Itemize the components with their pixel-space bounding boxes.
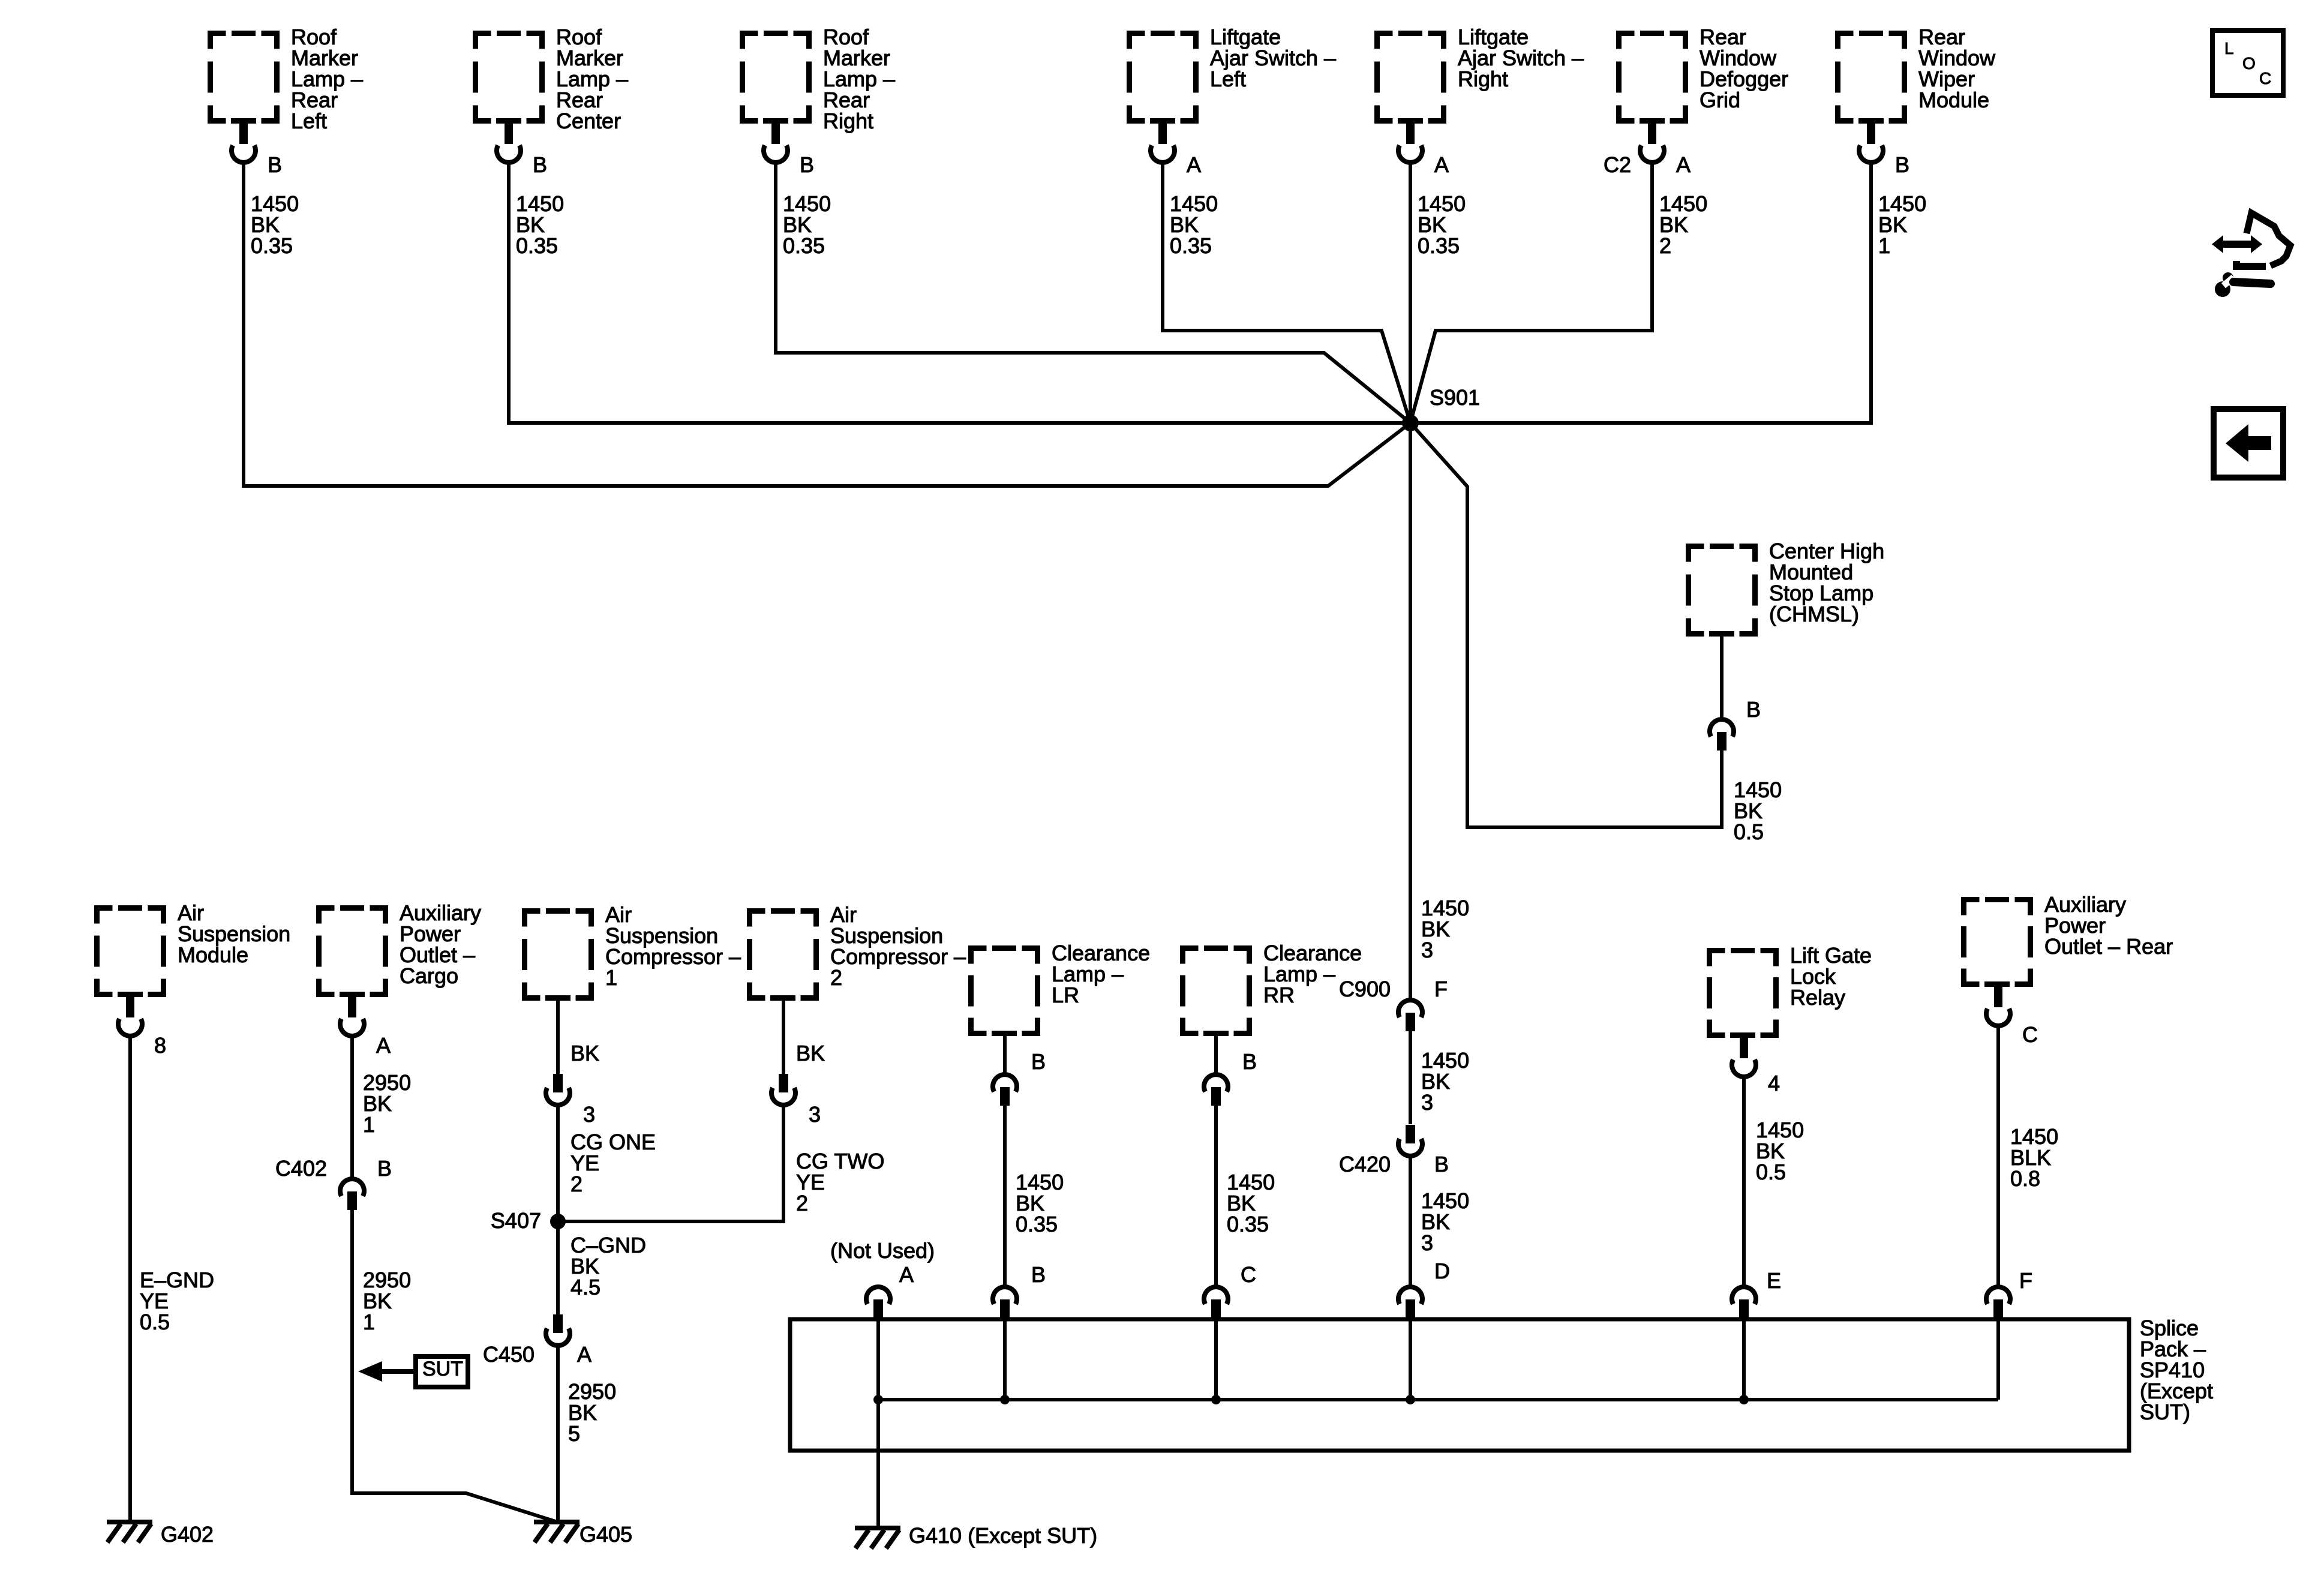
splice pack pin C connector xyxy=(1204,1287,1228,1318)
svg-text:2: 2 xyxy=(1659,233,1671,258)
svg-text:C: C xyxy=(2022,1022,2038,1047)
component box: air suspension module xyxy=(97,900,291,995)
wire: CHMSL box to connector xyxy=(1720,637,1724,718)
wire: S901 down to connector C900 xyxy=(1409,423,1412,998)
wire label 1450 BK 0.35 xyxy=(1170,191,1218,258)
svg-text:B: B xyxy=(377,1156,392,1181)
svg-text:0.35: 0.35 xyxy=(1170,233,1212,258)
pin A of liftgate ajar switch left xyxy=(1187,152,1201,177)
wire label 1450 BK 3 (above C900) xyxy=(1421,896,1469,962)
pin B of roof marker lamp rear center xyxy=(533,152,547,177)
wire label 1450 BLK 0.8 xyxy=(2010,1124,2058,1191)
wire label 1450 BK 1 xyxy=(1878,191,1926,258)
svg-text:2: 2 xyxy=(830,965,842,990)
inline connector of compressor 2 (pin 3) xyxy=(771,1074,795,1105)
label C450 xyxy=(483,1342,535,1367)
wire: compressor 2 connector to S407 xyxy=(558,1107,783,1221)
connector label C2 xyxy=(1604,152,1631,177)
wire: splice pack pin F to internal bus xyxy=(1996,1318,2000,1400)
svg-text:G402: G402 xyxy=(161,1522,214,1547)
connector of aux power outlet cargo (pin A) xyxy=(340,995,364,1036)
wire: clearance lamp RR connector to splice pack pin C xyxy=(1214,1106,1218,1287)
svg-text:Compressor –: Compressor – xyxy=(830,944,966,969)
label C420 xyxy=(1339,1152,1391,1176)
svg-text:RR: RR xyxy=(1263,983,1295,1007)
component box: rear window defogger grid xyxy=(1619,25,1789,121)
bus junction at pin C xyxy=(1211,1395,1221,1404)
svg-text:2: 2 xyxy=(571,1172,582,1196)
svg-text:Outlet – Rear: Outlet – Rear xyxy=(2044,934,2173,959)
svg-text:0.35: 0.35 xyxy=(1418,233,1460,258)
wire: rear window defogger grid to S901 xyxy=(1410,163,1652,423)
pin label E of splice pack xyxy=(1767,1268,1781,1293)
pin A of liftgate ajar switch right xyxy=(1434,152,1449,177)
svg-text:LR: LR xyxy=(1052,983,1079,1007)
splice pack pin E connector xyxy=(1732,1287,1756,1318)
wire label 1450 BK 0.35 (clearance lamp LR) xyxy=(1016,1170,1064,1236)
label C402 xyxy=(275,1156,327,1181)
(Not Used) note for pin A xyxy=(830,1238,935,1263)
svg-text:0.35: 0.35 xyxy=(516,233,558,258)
connector rear window wiper module (plug and receptacle) xyxy=(1859,122,1883,163)
component box: liftgate ajar switch right xyxy=(1377,25,1584,121)
wire label 1450 BK 0.35 (clearance lamp RR) xyxy=(1227,1170,1275,1236)
connector C900 (pin F) xyxy=(1398,1000,1422,1031)
svg-text:5: 5 xyxy=(568,1421,580,1446)
connector of air suspension module (pin 8) xyxy=(118,995,142,1036)
svg-text:B: B xyxy=(268,152,282,177)
pin label C of splice pack xyxy=(1241,1262,1256,1287)
wire: rear window wiper module to S901 (right part of main horizontal) xyxy=(1410,163,1871,423)
svg-text:Module: Module xyxy=(178,942,248,967)
LOC reference box icon xyxy=(2212,31,2283,95)
pin 4 of lift gate lock relay xyxy=(1768,1071,1780,1095)
component box: liftgate ajar switch left xyxy=(1130,25,1337,121)
wire: S407 to C450, C-GND BK 4.5 xyxy=(556,1221,560,1314)
svg-text:Module: Module xyxy=(1918,88,1989,112)
svg-text:B: B xyxy=(1434,1152,1449,1176)
svg-text:3: 3 xyxy=(809,1102,821,1127)
component box: auxiliary power outlet cargo xyxy=(319,900,482,995)
svg-text:SUT: SUT xyxy=(422,1358,463,1380)
pin B of CHMSL xyxy=(1746,697,1761,722)
svg-text:1: 1 xyxy=(605,965,617,990)
svg-text:L: L xyxy=(2224,39,2234,58)
wire label 1450 BK 0.35 xyxy=(1418,191,1466,258)
svg-text:BK: BK xyxy=(796,1041,825,1065)
ground G402 xyxy=(107,1522,214,1547)
wire: roof marker lamp rear left to S901 xyxy=(244,163,1410,486)
component box: rear window wiper module xyxy=(1838,25,1996,121)
component box: clearance lamp RR xyxy=(1183,941,1362,1034)
svg-text:D: D xyxy=(1434,1259,1450,1283)
svg-text:F: F xyxy=(2019,1268,2032,1293)
wire: compressor 2 box to connector, BK xyxy=(782,1001,785,1074)
splice pack pin D connector xyxy=(1398,1287,1422,1318)
wire label E-GND YE 0.5 xyxy=(140,1268,214,1334)
wire: clearance lamp RR box to connector xyxy=(1214,1036,1218,1073)
svg-text:BK: BK xyxy=(571,1041,599,1065)
svg-text:B: B xyxy=(800,152,814,177)
svg-text:0.35: 0.35 xyxy=(783,233,825,258)
wire: compressor 1 connector to S407 xyxy=(556,1107,560,1221)
component box: roof marker lamp rear right xyxy=(743,25,896,133)
svg-text:1: 1 xyxy=(363,1112,375,1137)
connector rear window defogger grid (plug and receptacle) xyxy=(1640,122,1664,163)
pin B of roof marker lamp rear left xyxy=(268,152,282,177)
wire: splice pack pin D to internal bus xyxy=(1409,1318,1412,1400)
svg-text:B: B xyxy=(1242,1049,1257,1074)
svg-text:1: 1 xyxy=(1878,233,1890,258)
wire label CG TWO YE 2 xyxy=(796,1149,884,1215)
svg-text:0.35: 0.35 xyxy=(251,233,293,258)
svg-text:C420: C420 xyxy=(1339,1152,1391,1176)
svg-text:C450: C450 xyxy=(483,1342,535,1367)
label C900 xyxy=(1339,977,1391,1001)
svg-text:C900: C900 xyxy=(1339,977,1391,1001)
wire: clearance lamp LR box to connector xyxy=(1003,1036,1007,1073)
component box: air suspension compressor 1 xyxy=(525,902,741,998)
bus junction at pin E xyxy=(1739,1395,1749,1404)
pin F of C900 xyxy=(1434,977,1448,1001)
wire label 2950 BK 1 (below C402) xyxy=(363,1268,411,1334)
service manual icon (double arrow, panel outline, wrench) xyxy=(2212,213,2290,297)
wire: lift gate lock relay to splice pack pin E, 1450 BK 0.5 xyxy=(1742,1077,1746,1287)
splice pack SP410 box xyxy=(790,1316,2213,1451)
wire: C420 to splice pack pin D xyxy=(1409,1158,1412,1287)
svg-text:G410 (Except SUT): G410 (Except SUT) xyxy=(909,1523,1097,1548)
wire: liftgate ajar switch right to S901 (vertical) xyxy=(1409,163,1412,423)
pin B of clearance lamp LR connector xyxy=(1031,1049,1046,1074)
connector C420 (pin B) xyxy=(1398,1125,1422,1156)
splice pack pin F connector xyxy=(1986,1287,2010,1318)
svg-text:F: F xyxy=(1434,977,1448,1001)
svg-text:1: 1 xyxy=(363,1310,375,1334)
connector of aux power outlet rear (pin C) xyxy=(1986,985,2010,1026)
wire: C450 to ground G405, 2950 BK 5 xyxy=(556,1347,560,1522)
svg-text:0.5: 0.5 xyxy=(1734,819,1764,844)
connector of lift gate lock relay (pin 4) xyxy=(1732,1036,1756,1077)
pin B of C420 xyxy=(1434,1152,1449,1176)
bus junction at pin D xyxy=(1406,1395,1415,1404)
pin 8 of air suspension module xyxy=(154,1033,166,1058)
svg-text:A: A xyxy=(1676,152,1691,177)
svg-text:E: E xyxy=(1767,1268,1781,1293)
wire: aux power outlet rear to splice pack pin F, 1450 BLK 0.8 xyxy=(1996,1026,2000,1287)
svg-text:4: 4 xyxy=(1768,1071,1780,1095)
pin A of C450 xyxy=(577,1342,591,1367)
ground G410 xyxy=(855,1523,1097,1548)
wire: C402 down and over to G405 xyxy=(352,1210,557,1522)
pin 3 of compressor 2 connector xyxy=(809,1102,821,1127)
inline connector of compressor 1 (pin 3) xyxy=(546,1074,570,1105)
svg-text:Grid: Grid xyxy=(1700,88,1740,112)
wire label 1450 BK 3 (above pin D) xyxy=(1421,1188,1469,1255)
svg-text:3: 3 xyxy=(1421,1090,1433,1115)
pin C of aux power outlet rear xyxy=(2022,1022,2038,1047)
back arrow box icon xyxy=(2214,409,2283,478)
connector C450 (pin A) xyxy=(546,1314,570,1346)
svg-text:B: B xyxy=(533,152,547,177)
svg-text:Left: Left xyxy=(291,109,327,133)
svg-text:B: B xyxy=(1746,697,1761,722)
svg-text:4.5: 4.5 xyxy=(571,1275,600,1299)
svg-text:C402: C402 xyxy=(275,1156,327,1181)
splice pack pin A connector xyxy=(866,1287,890,1318)
wire: splice pack pin E to internal bus xyxy=(1742,1318,1746,1400)
wire label CG ONE YE 2 xyxy=(571,1130,656,1196)
splice S901 xyxy=(1402,385,1480,431)
wire label 1450 BK 0.5 (CHMSL) xyxy=(1734,778,1782,844)
svg-text:A: A xyxy=(577,1342,591,1367)
svg-text:Right: Right xyxy=(1458,67,1508,91)
wire label 1450 BK 0.35 xyxy=(251,191,299,258)
svg-text:B: B xyxy=(1895,152,1909,177)
connector roof marker lamp rear left (plug and receptacle) xyxy=(232,122,256,163)
svg-text:S407: S407 xyxy=(491,1208,541,1233)
splice S407 xyxy=(491,1208,566,1233)
svg-text:C: C xyxy=(2259,69,2271,88)
svg-text:0.5: 0.5 xyxy=(1756,1160,1786,1184)
svg-text:C: C xyxy=(1241,1262,1256,1287)
svg-text:2: 2 xyxy=(796,1191,808,1215)
pin A of rear window defogger grid xyxy=(1676,152,1691,177)
connector liftgate ajar switch left (plug and receptacle) xyxy=(1151,122,1175,163)
svg-text:A: A xyxy=(376,1033,391,1058)
component box: air suspension compressor 2 xyxy=(750,902,966,998)
component box: roof marker lamp rear left xyxy=(211,25,364,133)
wire: splice pack pin A to internal bus xyxy=(876,1318,880,1526)
wire label BK (compressor 1) xyxy=(571,1041,599,1065)
wire: clearance lamp LR connector to splice pack pin B xyxy=(1003,1106,1007,1287)
svg-text:8: 8 xyxy=(154,1033,166,1058)
svg-text:Compressor –: Compressor – xyxy=(605,944,741,969)
svg-text:Center: Center xyxy=(556,109,621,133)
wire: roof marker lamp rear center to S901 (left part of main horizontal) xyxy=(509,163,1410,423)
svg-text:0.5: 0.5 xyxy=(140,1310,170,1334)
connector of clearance lamp LR (pin B) xyxy=(993,1074,1017,1106)
component box: clearance lamp LR xyxy=(971,941,1151,1034)
wire: C900 to C420 xyxy=(1409,1031,1412,1124)
connector roof marker lamp rear center (plug and receptacle) xyxy=(497,122,521,163)
svg-text:SUT): SUT) xyxy=(2140,1400,2190,1424)
wire: compressor 1 box to connector, BK xyxy=(556,1001,560,1074)
svg-text:Left: Left xyxy=(1210,67,1246,91)
ground G405 xyxy=(534,1522,632,1547)
pin label A of splice pack xyxy=(899,1262,914,1287)
wire label 1450 BK 0.35 xyxy=(783,191,831,258)
svg-text:Right: Right xyxy=(823,109,873,133)
svg-text:0.35: 0.35 xyxy=(1016,1212,1058,1236)
wire label 1450 BK 3 (between C900 and C420) xyxy=(1421,1048,1469,1115)
svg-text:(Not Used): (Not Used) xyxy=(830,1238,935,1263)
connector liftgate ajar switch right (plug and receptacle) xyxy=(1398,122,1422,163)
svg-text:Cargo: Cargo xyxy=(400,963,458,988)
component box: roof marker lamp rear center xyxy=(476,25,629,133)
connector of clearance lamp RR (pin B) xyxy=(1204,1074,1228,1106)
SUT tag with arrow pointing at wire xyxy=(358,1356,468,1387)
wire: liftgate ajar switch left to S901 xyxy=(1163,163,1410,423)
wire label 1450 BK 2 xyxy=(1659,191,1707,258)
wire label 1450 BK 0.5 (lift gate lock relay) xyxy=(1756,1118,1804,1184)
svg-text:O: O xyxy=(2242,54,2256,73)
svg-text:0.35: 0.35 xyxy=(1227,1212,1269,1236)
wire label 1450 BK 0.35 xyxy=(516,191,564,258)
pin A of aux power outlet cargo xyxy=(376,1033,391,1058)
wire: air suspension module to G402, E-GND YE 0.5 xyxy=(128,1036,132,1522)
svg-text:B: B xyxy=(1031,1262,1046,1287)
svg-text:3: 3 xyxy=(583,1102,595,1127)
pin B of clearance lamp RR connector xyxy=(1242,1049,1257,1074)
pin label D of splice pack xyxy=(1434,1259,1450,1283)
wire: aux outlet cargo to C402, 2950 BK 1 xyxy=(350,1036,354,1179)
svg-text:A: A xyxy=(899,1262,914,1287)
wire: splice pack pin B to internal bus xyxy=(1003,1318,1007,1400)
bus junction at pin B xyxy=(1000,1395,1010,1404)
component box: lift gate lock relay xyxy=(1710,943,1872,1035)
svg-text:C2: C2 xyxy=(1604,152,1631,177)
wire: S901 to CHMSL xyxy=(1410,423,1722,827)
component box: auxiliary power outlet rear xyxy=(1964,892,2173,984)
wire: roof marker lamp rear right to S901 xyxy=(776,163,1410,423)
svg-text:B: B xyxy=(1031,1049,1046,1074)
splice pack internal bus xyxy=(878,1398,1998,1401)
wire: splice pack pin C to internal bus xyxy=(1214,1318,1218,1400)
component box: center high mounted stop lamp (CHMSL) xyxy=(1689,539,1885,634)
svg-text:0.8: 0.8 xyxy=(2010,1166,2040,1191)
wire label C-GND BK 4.5 xyxy=(571,1233,646,1299)
connector C402 (pin B) xyxy=(340,1179,364,1210)
bus junction at pin A xyxy=(873,1395,883,1404)
wire label 2950 BK 5 xyxy=(568,1379,616,1446)
pin label B of splice pack xyxy=(1031,1262,1046,1287)
pin B of roof marker lamp rear right xyxy=(800,152,814,177)
svg-text:A: A xyxy=(1187,152,1201,177)
connector roof marker lamp rear right (plug and receptacle) xyxy=(764,122,788,163)
svg-text:S901: S901 xyxy=(1430,385,1480,410)
connector of CHMSL (pin B) xyxy=(1710,719,1734,751)
splice pack pin B connector xyxy=(993,1287,1017,1318)
svg-text:Relay: Relay xyxy=(1790,985,1845,1010)
pin B of C402 xyxy=(377,1156,392,1181)
pin 3 of compressor 1 connector xyxy=(583,1102,595,1127)
pin B of rear window wiper module xyxy=(1895,152,1909,177)
wire label 2950 BK 1 (above C402) xyxy=(363,1070,411,1137)
svg-text:3: 3 xyxy=(1421,1230,1433,1255)
pin label F of splice pack xyxy=(2019,1268,2032,1293)
svg-text:(CHMSL): (CHMSL) xyxy=(1769,602,1859,626)
svg-text:3: 3 xyxy=(1421,938,1433,962)
wire label BK (compressor 2) xyxy=(796,1041,825,1065)
svg-text:G405: G405 xyxy=(580,1522,632,1547)
svg-text:A: A xyxy=(1434,152,1449,177)
